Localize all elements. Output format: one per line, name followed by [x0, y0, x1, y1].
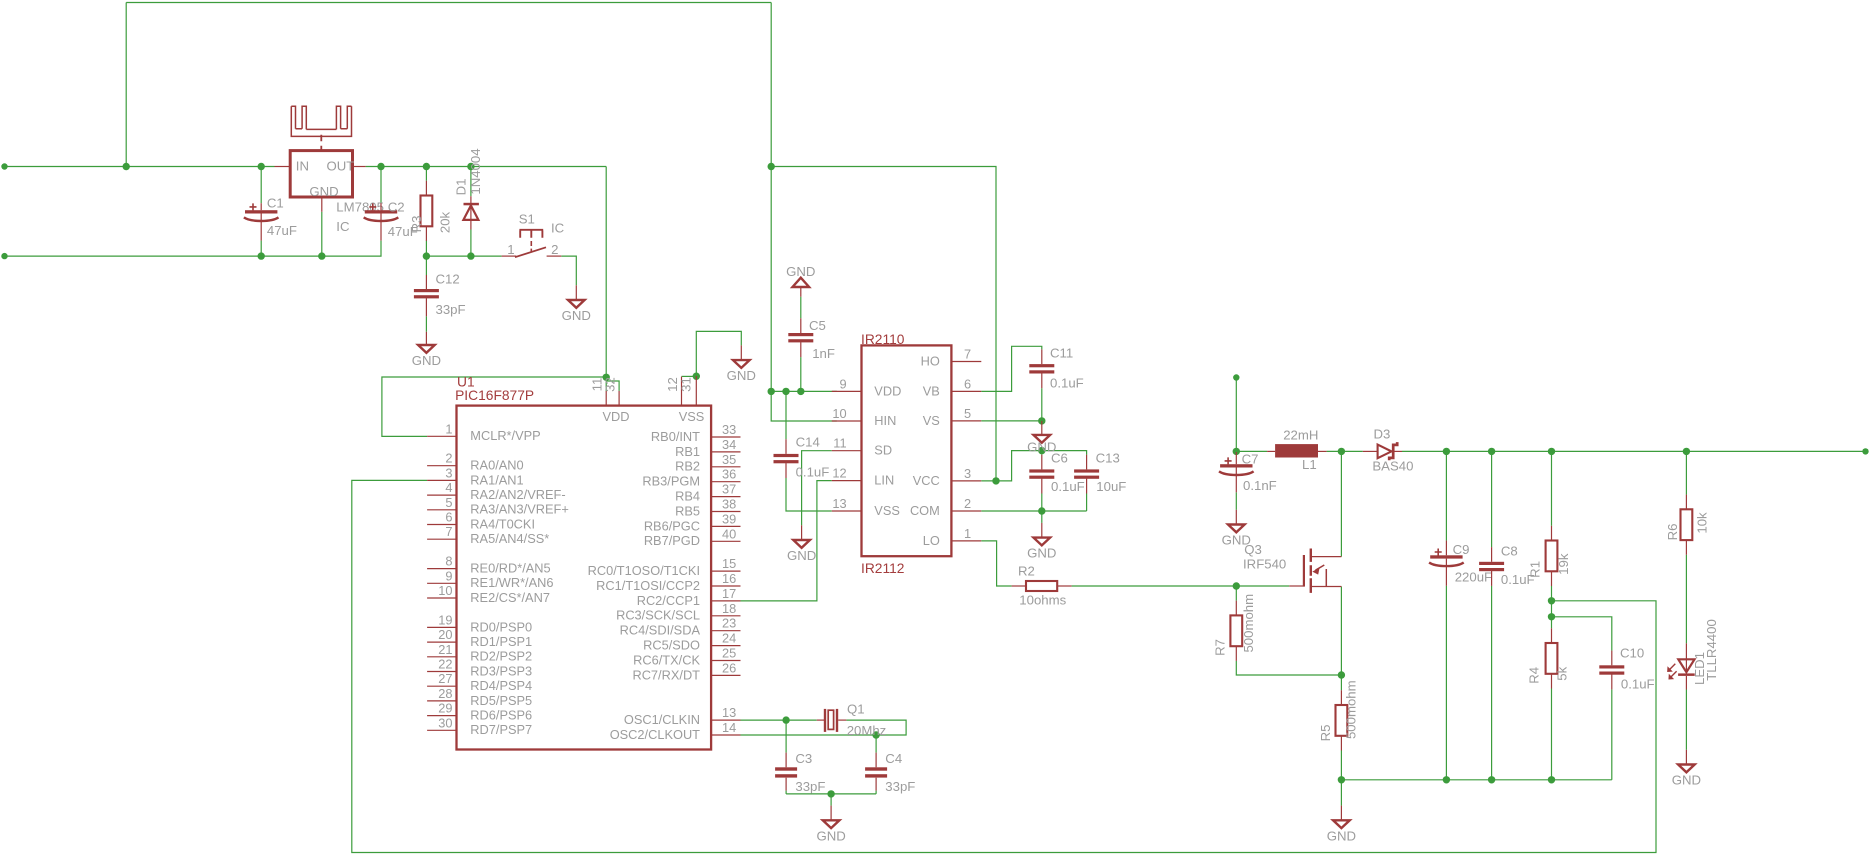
wire VDD row to pin 9 [771, 390, 837, 392]
svg-text:RC0/T1OSO/T1CKI: RC0/T1OSO/T1CKI [588, 563, 700, 578]
heatsink KK1 on regulator [291, 106, 351, 150]
svg-text:C13: C13 [1096, 451, 1120, 466]
svg-text:16: 16 [722, 571, 736, 586]
wire IR2112 VDD vertical [770, 3, 772, 392]
svg-text:C6: C6 [1051, 451, 1068, 466]
wire C8 bottom [1491, 586, 1493, 780]
wire input V+ rail [5, 166, 275, 168]
ground below COM [1041, 523, 1043, 538]
svg-text:RB3/PGM: RB3/PGM [642, 474, 700, 489]
svg-text:L1: L1 [1302, 457, 1317, 472]
wire COM pin 2 row [981, 510, 1086, 512]
wire Q3 drain vertical [1340, 451, 1342, 556]
wire VSS to ground symbol [696, 331, 741, 376]
svg-text:VCC: VCC [913, 473, 940, 488]
svg-text:LIN: LIN [874, 473, 894, 488]
svg-text:36: 36 [722, 467, 736, 482]
svg-text:13: 13 [722, 705, 736, 720]
svg-text:9: 9 [445, 568, 452, 583]
svg-text:VSS: VSS [679, 409, 705, 424]
capacitor C1 47uF [244, 196, 297, 241]
svg-text:S1: S1 [519, 212, 535, 227]
wire D3 cathode to output rail [1402, 450, 1866, 452]
wire R7 top [1235, 586, 1237, 601]
wire SD pin 11 to VSS node [802, 451, 832, 511]
svg-text:0.1uF: 0.1uF [1051, 479, 1085, 494]
svg-text:R2: R2 [1018, 564, 1035, 579]
svg-text:GND: GND [412, 353, 441, 368]
svg-text:VSS: VSS [874, 503, 900, 518]
wire R1 bottom to divider nodes [1551, 586, 1553, 617]
svg-text:25: 25 [722, 646, 736, 661]
wire LIN pin 12 to PIC RC2 [741, 481, 832, 601]
svg-text:C9: C9 [1453, 542, 1470, 557]
svg-text:10: 10 [832, 406, 846, 421]
svg-text:RD2/PSP2: RD2/PSP2 [470, 649, 532, 664]
wire crystal caps ground bus [786, 793, 876, 795]
svg-text:OUT: OUT [327, 158, 355, 173]
svg-text:20: 20 [438, 627, 452, 642]
svg-text:BAS40: BAS40 [1372, 458, 1413, 473]
ground for PIC VSS [740, 345, 742, 360]
wire C12 top branch [425, 256, 427, 275]
wire R5 bottom to ground rail [1340, 751, 1342, 780]
svg-text:28: 28 [438, 686, 452, 701]
wire R6 top [1685, 451, 1687, 494]
wire VDD pin32 elbow [606, 381, 619, 391]
svg-text:IC: IC [336, 219, 350, 234]
svg-text:HIN: HIN [874, 413, 896, 428]
capacitor C3 33pF [775, 751, 825, 794]
wire R7 bottom to source net [1236, 661, 1341, 675]
wire C14 top to VDD row [785, 391, 787, 439]
svg-text:11: 11 [833, 436, 846, 451]
svg-text:500mohm: 500mohm [1344, 680, 1359, 739]
svg-text:5: 5 [445, 495, 452, 510]
svg-text:19: 19 [438, 612, 452, 627]
svg-text:9: 9 [839, 376, 846, 391]
svg-text:3: 3 [445, 465, 452, 480]
wire C10 bottom [1611, 689, 1613, 779]
wire C9 top [1445, 451, 1447, 540]
wire S1 pin2 to ground [561, 256, 576, 285]
wire R2 to Q3 gate [1072, 585, 1290, 587]
svg-text:R6: R6 [1665, 524, 1680, 541]
ground below LED1 [1685, 750, 1687, 765]
open endpoint dots [1, 163, 1868, 454]
wire boost net stub down to rail [1235, 378, 1237, 452]
svg-text:C1: C1 [267, 196, 284, 211]
svg-text:7: 7 [964, 347, 971, 362]
svg-text:RE1/WR*/AN6: RE1/WR*/AN6 [470, 575, 553, 590]
svg-text:R3: R3 [409, 216, 424, 233]
svg-text:C5: C5 [809, 318, 826, 333]
svg-text:GND: GND [786, 264, 815, 279]
svg-text:GND: GND [562, 308, 591, 323]
svg-text:37: 37 [722, 482, 736, 497]
svg-text:C7: C7 [1242, 452, 1259, 467]
svg-text:RD7/PSP7: RD7/PSP7 [470, 722, 532, 737]
svg-text:RD4/PSP4: RD4/PSP4 [470, 678, 532, 693]
wire divider node to C10 [1552, 617, 1612, 651]
svg-text:RB1: RB1 [675, 444, 700, 459]
svg-text:C4: C4 [885, 751, 902, 766]
wire VSS pins join [682, 375, 697, 377]
svg-text:RE0/RD*/AN5: RE0/RD*/AN5 [470, 561, 550, 576]
svg-text:C10: C10 [1620, 646, 1644, 661]
capacitor C9 220uF [1429, 541, 1492, 586]
svg-text:RC1/T1OSI/CCP2: RC1/T1OSI/CCP2 [596, 578, 700, 593]
svg-text:IC: IC [551, 221, 565, 236]
svg-text:4: 4 [445, 480, 452, 495]
svg-text:VB: VB [923, 383, 940, 398]
svg-text:2: 2 [445, 451, 452, 466]
svg-text:RB5: RB5 [675, 503, 700, 518]
wire C4 bottom [875, 791, 877, 794]
svg-text:30: 30 [438, 715, 452, 730]
wire 5V to IR2112 VCC [771, 167, 996, 481]
svg-text:RC6/TX/CK: RC6/TX/CK [633, 652, 700, 667]
svg-text:18: 18 [722, 601, 736, 616]
svg-text:GND: GND [1327, 828, 1356, 843]
svg-text:33pF: 33pF [885, 779, 915, 794]
svg-text:GND: GND [309, 184, 338, 199]
wire VSS node to pin 13 [802, 510, 832, 512]
svg-text:40: 40 [722, 526, 736, 541]
wire VB pin 6 to C11 [981, 346, 1042, 391]
svg-text:10k: 10k [1695, 512, 1710, 534]
svg-text:33pF: 33pF [436, 302, 466, 317]
svg-text:26: 26 [722, 660, 736, 675]
capacitor C2 47uF [364, 200, 418, 241]
svg-text:C12: C12 [436, 272, 460, 287]
svg-text:6: 6 [445, 510, 452, 525]
wire COM to ground [1041, 511, 1043, 523]
resistor R2 10ohms [1012, 564, 1072, 608]
wire LED1 to ground [1685, 690, 1687, 750]
wire L1 to D3 anode with drain tap [1327, 450, 1363, 452]
ground below VS pin [1041, 421, 1043, 435]
svg-text:RB6/PGC: RB6/PGC [644, 518, 700, 533]
gate driver IC IR2112 [861, 332, 951, 576]
svg-text:RE2/CS*/AN7: RE2/CS*/AN7 [470, 590, 550, 605]
wire crystal ground stub [830, 794, 832, 806]
ground [787, 540, 816, 563]
svg-text:5: 5 [964, 406, 971, 421]
svg-text:R1: R1 [1528, 561, 1543, 578]
svg-text:RD6/PSP6: RD6/PSP6 [470, 708, 532, 723]
svg-text:33pF: 33pF [795, 779, 825, 794]
wire VS pin 5 [981, 420, 1042, 422]
svg-text:1N4004: 1N4004 [468, 148, 483, 194]
wire 5V rail from regulator OUT [366, 166, 607, 168]
svg-text:1: 1 [445, 421, 452, 436]
svg-text:12: 12 [832, 466, 846, 481]
wire MCLR reset net to S1 [426, 255, 501, 257]
svg-text:VS: VS [923, 413, 940, 428]
capacitor C5 1nF [788, 318, 835, 361]
resistor R7 500mohm [1213, 594, 1256, 661]
PIC right pins with numbers and labels [588, 422, 741, 742]
wire ground rail to GND symbol [1340, 780, 1342, 806]
wire C14 bottom to VSS node [786, 478, 802, 511]
svg-text:10: 10 [438, 583, 452, 598]
svg-text:24: 24 [722, 631, 736, 646]
svg-text:7: 7 [445, 524, 452, 539]
svg-text:GND: GND [816, 828, 845, 843]
svg-text:29: 29 [438, 701, 452, 716]
wire input GND rail [5, 241, 382, 257]
svg-text:RC3/SCK/SCL: RC3/SCK/SCL [616, 608, 700, 623]
svg-text:22: 22 [438, 657, 452, 672]
svg-text:VDD: VDD [874, 383, 901, 398]
svg-text:PIC16F877P: PIC16F877P [455, 388, 534, 403]
svg-text:RC7/RX/DT: RC7/RX/DT [632, 667, 700, 682]
svg-text:OSC2/CLKOUT: OSC2/CLKOUT [610, 727, 700, 742]
svg-text:R4: R4 [1527, 667, 1542, 684]
wire crystal to OSC2 pin14 [741, 720, 907, 735]
wire C2 top [380, 167, 382, 204]
IR2112 left pins [832, 376, 902, 518]
resistor R4 5k [1527, 628, 1570, 688]
capacitor C11 0.1uF [1029, 346, 1083, 391]
PIC VDD top pins 11 and 32 [590, 377, 620, 405]
wire C5 bottom to VDD row [800, 357, 802, 391]
svg-text:31: 31 [679, 377, 694, 392]
ground below C12 [425, 332, 427, 345]
svg-text:C2: C2 [388, 200, 405, 215]
svg-text:TLLR4400: TLLR4400 [1704, 619, 1719, 681]
svg-text:GND: GND [1027, 546, 1056, 561]
svg-text:10ohms: 10ohms [1019, 593, 1066, 608]
ground below IR2112 VSS [801, 525, 803, 540]
wire MCLR pin1 to VDD node [382, 377, 606, 436]
ground below R5 [1340, 806, 1342, 821]
svg-text:6: 6 [964, 376, 971, 391]
svg-text:39: 39 [722, 511, 736, 526]
svg-text:0.1uF: 0.1uF [1050, 376, 1084, 391]
svg-text:RA4/T0CKI: RA4/T0CKI [470, 516, 535, 531]
svg-text:RA3/AN3/VREF+: RA3/AN3/VREF+ [470, 502, 569, 517]
svg-text:2: 2 [964, 496, 971, 511]
wire C13 bottom [1086, 494, 1088, 512]
svg-text:RC4/SDI/SDA: RC4/SDI/SDA [620, 623, 701, 638]
ground [1222, 525, 1251, 548]
svg-text:0.1nF: 0.1nF [1243, 478, 1277, 493]
microcontroller U1 PIC16F877P [455, 375, 711, 750]
svg-text:RC2/CCP1: RC2/CCP1 [637, 593, 700, 608]
wire C4 top [875, 735, 877, 753]
schottky diode D3 BAS40 [1363, 426, 1414, 473]
wire C12 bottom to ground [425, 316, 427, 332]
svg-text:8: 8 [445, 554, 452, 569]
ground below C7 [1235, 510, 1237, 525]
wire feedback loop to PIC RA1 [352, 480, 1656, 852]
switch S1 [502, 212, 565, 258]
svg-text:38: 38 [722, 497, 736, 512]
wire Q3 source down [1340, 587, 1342, 691]
ground [816, 820, 845, 843]
svg-text:GND: GND [1672, 773, 1701, 788]
wire HIN elbow to pin 10 [771, 391, 837, 421]
svg-text:22mH: 22mH [1283, 428, 1318, 443]
ground [1034, 435, 1051, 443]
svg-text:RA2/AN2/VREF-: RA2/AN2/VREF- [470, 487, 565, 502]
svg-text:GND: GND [727, 368, 756, 383]
wire C6 top stub [1041, 451, 1043, 455]
svg-text:34: 34 [722, 437, 736, 452]
svg-text:47uF: 47uF [267, 223, 297, 238]
svg-text:C11: C11 [1050, 346, 1073, 361]
svg-text:Q3: Q3 [1244, 542, 1262, 557]
ground from S1 pin 2 [575, 285, 577, 300]
ground [727, 360, 756, 383]
wire C5 net [800, 297, 802, 319]
svg-text:VDD: VDD [603, 409, 630, 424]
wire C1 bottom [260, 241, 262, 257]
svg-text:COM: COM [910, 503, 940, 518]
wire top rail from input to IR2112 VDD [126, 2, 771, 4]
svg-text:GND: GND [787, 548, 816, 563]
svg-text:SD: SD [874, 443, 892, 458]
svg-text:C8: C8 [1501, 543, 1518, 558]
svg-text:RB7/PGD: RB7/PGD [644, 533, 700, 548]
wire 5V down to PIC VDD [605, 167, 607, 391]
svg-text:RD3/PSP3: RD3/PSP3 [470, 663, 532, 678]
wire VCC pin 3 to bypass caps [981, 451, 1086, 481]
svg-text:RB2: RB2 [675, 459, 700, 474]
svg-text:500mohm: 500mohm [1241, 594, 1256, 653]
wire D1 bottom [470, 230, 472, 257]
svg-text:RA1/AN1: RA1/AN1 [470, 472, 523, 487]
ground [1027, 538, 1056, 561]
capacitor C10 0.1uF [1599, 646, 1654, 692]
capacitor C13 10uF [1074, 451, 1126, 495]
wire rail to L1 [1236, 450, 1267, 452]
svg-text:IR2112: IR2112 [861, 561, 904, 576]
wire C3 top [785, 720, 787, 753]
svg-text:10uF: 10uF [1096, 479, 1126, 494]
wire R1 top [1551, 451, 1553, 525]
wire C8 top [1491, 451, 1493, 547]
svg-text:220uF: 220uF [1455, 570, 1492, 585]
wire ground rail bottom [1341, 779, 1611, 781]
svg-text:RB4: RB4 [675, 489, 700, 504]
svg-text:D3: D3 [1374, 426, 1391, 441]
svg-text:D1: D1 [454, 179, 469, 196]
PIC VSS top pins 12 and 31 [665, 376, 696, 406]
svg-text:LO: LO [923, 533, 940, 548]
wire left vertical of top rail [125, 3, 127, 167]
svg-text:19k: 19k [1556, 553, 1571, 575]
svg-text:5k: 5k [1555, 666, 1570, 680]
svg-text:RA0/AN0: RA0/AN0 [470, 458, 523, 473]
svg-text:33: 33 [722, 422, 736, 437]
svg-text:0.1uF: 0.1uF [1621, 677, 1655, 692]
ground below crystal caps [830, 806, 832, 821]
svg-text:IRF540: IRF540 [1243, 557, 1286, 572]
ground [562, 300, 591, 323]
svg-text:RD0/PSP0: RD0/PSP0 [470, 619, 532, 634]
svg-text:MCLR*/VPP: MCLR*/VPP [470, 428, 540, 443]
svg-text:20k: 20k [438, 211, 453, 233]
resistor R1 19k [1528, 526, 1572, 586]
svg-text:2: 2 [551, 242, 558, 257]
svg-text:15: 15 [722, 556, 736, 571]
crystal Q1 20Mhz [817, 702, 887, 738]
resistor R6 10k [1665, 495, 1710, 555]
diode D1 1N4004 [454, 148, 483, 229]
svg-text:RD5/PSP5: RD5/PSP5 [470, 693, 532, 708]
capacitor C12 33pF [414, 272, 466, 318]
wire C11 bottom to VS [1041, 388, 1043, 421]
svg-text:RC5/SDO: RC5/SDO [643, 638, 700, 653]
wire LO pin 1 to gate resistor R2 [981, 541, 1011, 586]
svg-text:Q1: Q1 [847, 702, 865, 717]
svg-text:R7: R7 [1213, 639, 1228, 656]
ground [412, 345, 441, 368]
svg-text:C14: C14 [796, 435, 820, 450]
wire R4 bottom [1551, 689, 1553, 780]
resistor R5 500mohm [1318, 680, 1359, 750]
svg-text:IN: IN [296, 158, 309, 173]
svg-text:HO: HO [921, 353, 940, 368]
svg-text:R5: R5 [1318, 725, 1333, 742]
wire R4 top [1551, 617, 1553, 629]
capacitor C8 0.1uF [1479, 543, 1535, 587]
wire OSC1 pin13 to crystal [741, 719, 817, 721]
wire R3 bottom [425, 241, 427, 257]
svg-text:17: 17 [722, 586, 736, 601]
PIC left pins with numbers and labels [427, 421, 569, 737]
ground [1327, 820, 1356, 843]
svg-text:C3: C3 [795, 751, 812, 766]
IR2112 right pins [910, 347, 981, 548]
ground [1672, 765, 1701, 788]
ground (mirrored) [786, 264, 815, 287]
svg-text:IR2110: IR2110 [861, 332, 905, 347]
svg-text:3: 3 [964, 466, 971, 481]
wire C3 bottom [785, 791, 787, 794]
wire R6 to LED1 [1685, 555, 1687, 644]
wire C1 top [260, 167, 262, 204]
capacitor C4 33pF [865, 751, 915, 794]
wire D1 top [470, 167, 472, 197]
resistor R3 20k [409, 181, 453, 241]
capacitor C6 0.1uF [1029, 451, 1084, 495]
svg-text:21: 21 [438, 642, 452, 657]
voltage regulator IC LM7805 [275, 151, 384, 235]
svg-text:35: 35 [722, 452, 736, 467]
inductor L1 22mH [1267, 428, 1327, 473]
svg-text:27: 27 [438, 671, 452, 686]
LED1 TLLR4400 [1668, 619, 1719, 689]
svg-text:23: 23 [722, 616, 736, 631]
svg-text:20Mhz: 20Mhz [847, 723, 887, 738]
svg-text:OSC1/CLKIN: OSC1/CLKIN [624, 712, 700, 727]
svg-text:32: 32 [603, 377, 618, 392]
capacitor C14 0.1uF [774, 435, 830, 480]
wire C9 bottom [1445, 586, 1447, 780]
svg-text:RB0/INT: RB0/INT [651, 429, 700, 444]
svg-text:1: 1 [507, 242, 514, 257]
transistor Q3 IRF540 [1243, 542, 1341, 593]
svg-text:0.1uF: 0.1uF [796, 465, 830, 480]
wire C7 bottom to ground [1235, 492, 1237, 510]
svg-text:1nF: 1nF [812, 346, 835, 361]
capacitor C7 0.1nF [1219, 452, 1277, 494]
wire VSS node to ground [801, 511, 803, 525]
